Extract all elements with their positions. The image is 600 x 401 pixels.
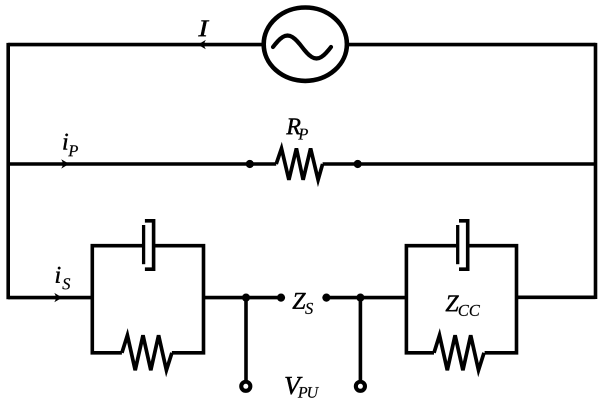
label i_P [63, 134, 68, 150]
resistor in Z_CC network [434, 335, 484, 370]
wire i_S to left network [8, 296, 92, 300]
resistor R_P [276, 148, 322, 179]
label V_PU [285, 377, 302, 394]
label Z_CC [446, 295, 459, 311]
label I [198, 20, 209, 36]
wire middle rail right of R_P [323, 162, 596, 166]
wire left network to node dots [204, 296, 282, 300]
node dot Z_S left [277, 294, 285, 302]
label i_S [56, 267, 61, 283]
resistor in left network [122, 335, 172, 370]
terminal right (open circle) [356, 382, 365, 391]
wire left rail [6, 43, 10, 299]
arrow current i_S (points right) [54, 293, 62, 302]
node dot left of R_P [246, 160, 254, 168]
capacitor left plate (left network) [142, 225, 145, 264]
node dot junction right terminal [356, 294, 364, 302]
left RC network box outline [92, 246, 203, 353]
node dot right of R_P [354, 160, 362, 168]
Z_CC network box outline [406, 246, 516, 353]
wire right node to Z_CC network [326, 296, 406, 300]
capacitor right bracket plate (Z_CC network) [459, 221, 468, 269]
wire Z_CC network to right rail [517, 295, 596, 299]
node dot junction left terminal [242, 294, 250, 302]
wire right terminal drop [359, 298, 363, 387]
capacitor left plate (Z_CC network) [456, 225, 459, 264]
wire right rail [594, 43, 598, 299]
arrow current I (points left) [198, 40, 206, 49]
wire middle rail left of R_P [8, 162, 276, 166]
label R_P [286, 118, 300, 134]
node dot Z_S right [322, 294, 330, 302]
wire top rail [8, 43, 595, 47]
terminal left (open circle) [241, 382, 250, 391]
AC source U1 circle [264, 8, 347, 81]
label Z_S [292, 293, 305, 309]
wire left terminal drop [244, 298, 248, 387]
arrow current i_P (points right) [61, 159, 69, 168]
capacitor right bracket plate (left network) [145, 221, 154, 269]
AC source U1 sine wave [273, 36, 331, 59]
